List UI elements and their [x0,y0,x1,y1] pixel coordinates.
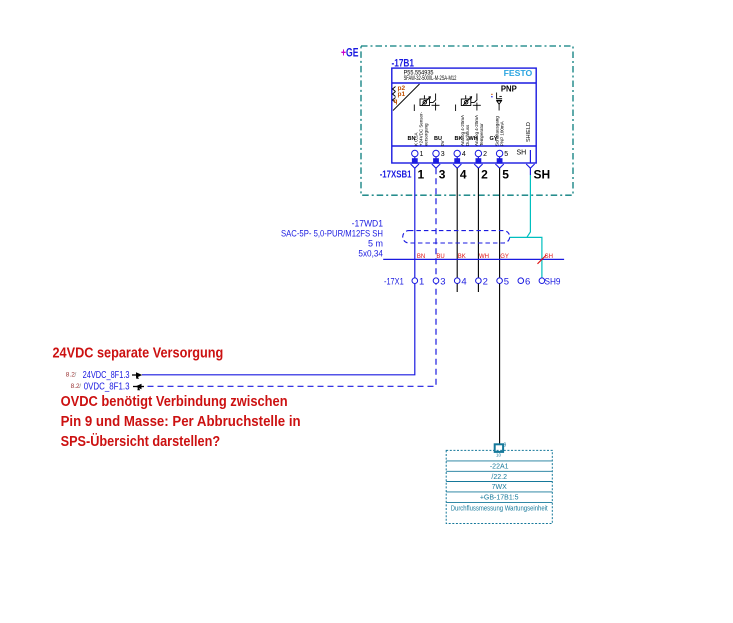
pneumatic ports p2 p1 q [393,87,396,103]
flow sensor -17B1 body [392,68,536,163]
svg-text:5: 5 [502,168,509,182]
wire stub below terminal 2 [477,284,479,292]
svg-text:BK: BK [455,136,463,142]
PLC connection point square [495,444,503,452]
flow sensor symbol 2 [456,94,481,112]
svg-text:Temperatur: Temperatur [479,123,484,146]
wire colour labels [417,254,509,260]
svg-text:/: / [75,372,77,379]
svg-text:+GE: +GE [341,48,359,60]
svg-text:WH: WH [469,136,478,142]
svg-text:2: 2 [481,168,488,182]
svg-text:6: 6 [525,277,530,288]
svg-text:BK: BK [458,254,466,260]
net 24VDC_8F1.3 arrow [132,374,137,376]
wire SH pigtail stub [529,168,531,175]
svg-text:0VDC_8F1.3: 0VDC_8F1.3 [84,382,130,393]
svg-text:3: 3 [441,151,445,158]
svg-text:4: 4 [461,277,466,288]
wire GY (pin5) [499,168,501,277]
svg-text:PNP: PNP [501,85,518,94]
svg-text:3: 3 [439,168,446,182]
svg-text:GY: GY [500,254,509,260]
svg-text:5: 5 [504,151,508,158]
location frame +GE [361,46,573,195]
pin function texts column pin2 [474,115,484,146]
svg-text:/: / [79,383,81,390]
svg-text:SH: SH [517,150,527,157]
svg-text:SFAW-32-5000L-M-2SA-M12: SFAW-32-5000L-M-2SA-M12 [404,76,457,82]
svg-text:SPS-Übersicht darstellen?: SPS-Übersicht darstellen? [61,433,221,450]
svg-text:Durchfluss: Durchfluss [465,124,470,146]
wire colour base line [383,258,564,260]
pin function texts column pin4 [460,115,470,146]
pin function texts (rotated) column pin1 [414,111,429,146]
svg-text:1: 1 [418,168,425,182]
cable -17WD1 symbol (dashed stadium) [403,231,510,243]
wire SH shield [510,175,542,278]
wire stub below terminal 4 [456,284,458,292]
svg-text:24VDC separate Versorgung: 24VDC separate Versorgung [53,345,224,361]
wire BN (pin1, 24VDC) [414,168,416,277]
annotation OVDC block [61,394,301,450]
wire terminal5 to PLC input [499,284,501,445]
svg-text:4: 4 [462,151,466,158]
wire WH (pin2) [477,168,479,277]
svg-text:9: 9 [504,443,507,449]
svg-text:OVDC benötigt Verbindung zwisc: OVDC benötigt Verbindung zwischen [61,394,288,410]
svg-text:Durchflussmessung Wartungseinh: Durchflussmessung Wartungseinheit [451,506,548,513]
svg-text:+GB-17B1:5: +GB-17B1:5 [480,495,519,502]
svg-text:PNP 100mA: PNP 100mA [500,121,505,146]
svg-text:BU: BU [434,136,442,142]
svg-text:7WX: 7WX [492,484,508,491]
PLC box -22A1 [446,450,552,523]
svg-text:10: 10 [496,453,502,458]
svg-text:versorgung: versorgung [424,123,429,146]
terminal circles [412,278,545,284]
svg-text:GY: GY [490,136,498,142]
net 0VDC_8F1.3 wire (dashed) [148,284,437,387]
wire BU (pin3, 0VDC, dashed) [435,168,437,277]
diagonal divider [393,84,420,111]
PNP output symbol [496,93,502,111]
svg-text:4: 4 [460,168,467,182]
svg-text:SH9: SH9 [545,277,561,288]
svg-text:/22.2: /22.2 [491,474,507,481]
svg-text:1: 1 [419,277,424,288]
svg-text:p1: p1 [398,91,406,98]
big pin labels 1 3 4 2 5 SH [418,168,551,182]
svg-text:24VDC_8F1.3: 24VDC_8F1.3 [83,370,130,381]
pin stubs below circles [415,150,531,163]
svg-text:5x0,34: 5x0,34 [358,249,383,260]
wire BK (pin4) [456,168,458,277]
plug pins (filled squares) [412,158,503,164]
svg-text:-22A1: -22A1 [490,464,509,471]
socket chevrons [411,164,535,168]
svg-text:BN: BN [408,136,416,142]
svg-text:3: 3 [440,277,445,288]
svg-text:-17X1: -17X1 [384,277,404,288]
net 0VDC_8F1.3 arrow [133,386,144,388]
svg-text:BN: BN [417,254,425,260]
svg-text:2: 2 [483,151,487,158]
svg-text:q: q [394,98,398,105]
svg-text:WH: WH [479,254,489,260]
terminal labels [419,277,561,288]
net 24VDC_8F1.3 wire [142,284,415,375]
svg-text:2: 2 [483,277,488,288]
pin number labels (inside row) [420,150,527,159]
svg-text:SHIELD: SHIELD [526,122,532,142]
svg-text:BU: BU [436,254,444,260]
flow sensor symbol 1 [414,94,439,112]
svg-text:SH: SH [534,168,551,182]
pin function texts column pin5 [495,116,505,146]
svg-text:FESTO: FESTO [504,69,533,78]
svg-text:5: 5 [504,277,509,288]
svg-text:-17XSB1: -17XSB1 [380,169,412,181]
pin circles row [412,150,503,156]
svg-text:Pin 9 und Masse: Per Abbruchst: Pin 9 und Masse: Per Abbruchstelle in [61,414,301,430]
svg-text:1: 1 [420,151,424,158]
